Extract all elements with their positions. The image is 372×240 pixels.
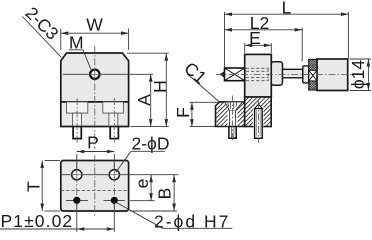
svg-text:e: e: [132, 179, 152, 189]
svg-text:B: B: [155, 188, 175, 200]
svg-text:H: H: [150, 80, 170, 93]
svg-text:2-ϕD: 2-ϕD: [132, 134, 170, 154]
svg-text:W: W: [86, 15, 103, 35]
svg-text:T: T: [24, 181, 44, 192]
svg-text:P: P: [87, 133, 99, 153]
svg-text:ϕ14: ϕ14: [348, 60, 368, 90]
svg-text:P1±0.02: P1±0.02: [1, 211, 74, 231]
svg-text:F: F: [173, 107, 193, 118]
svg-text:E: E: [249, 28, 261, 48]
svg-text:L: L: [282, 0, 292, 17]
svg-text:A: A: [134, 94, 154, 106]
